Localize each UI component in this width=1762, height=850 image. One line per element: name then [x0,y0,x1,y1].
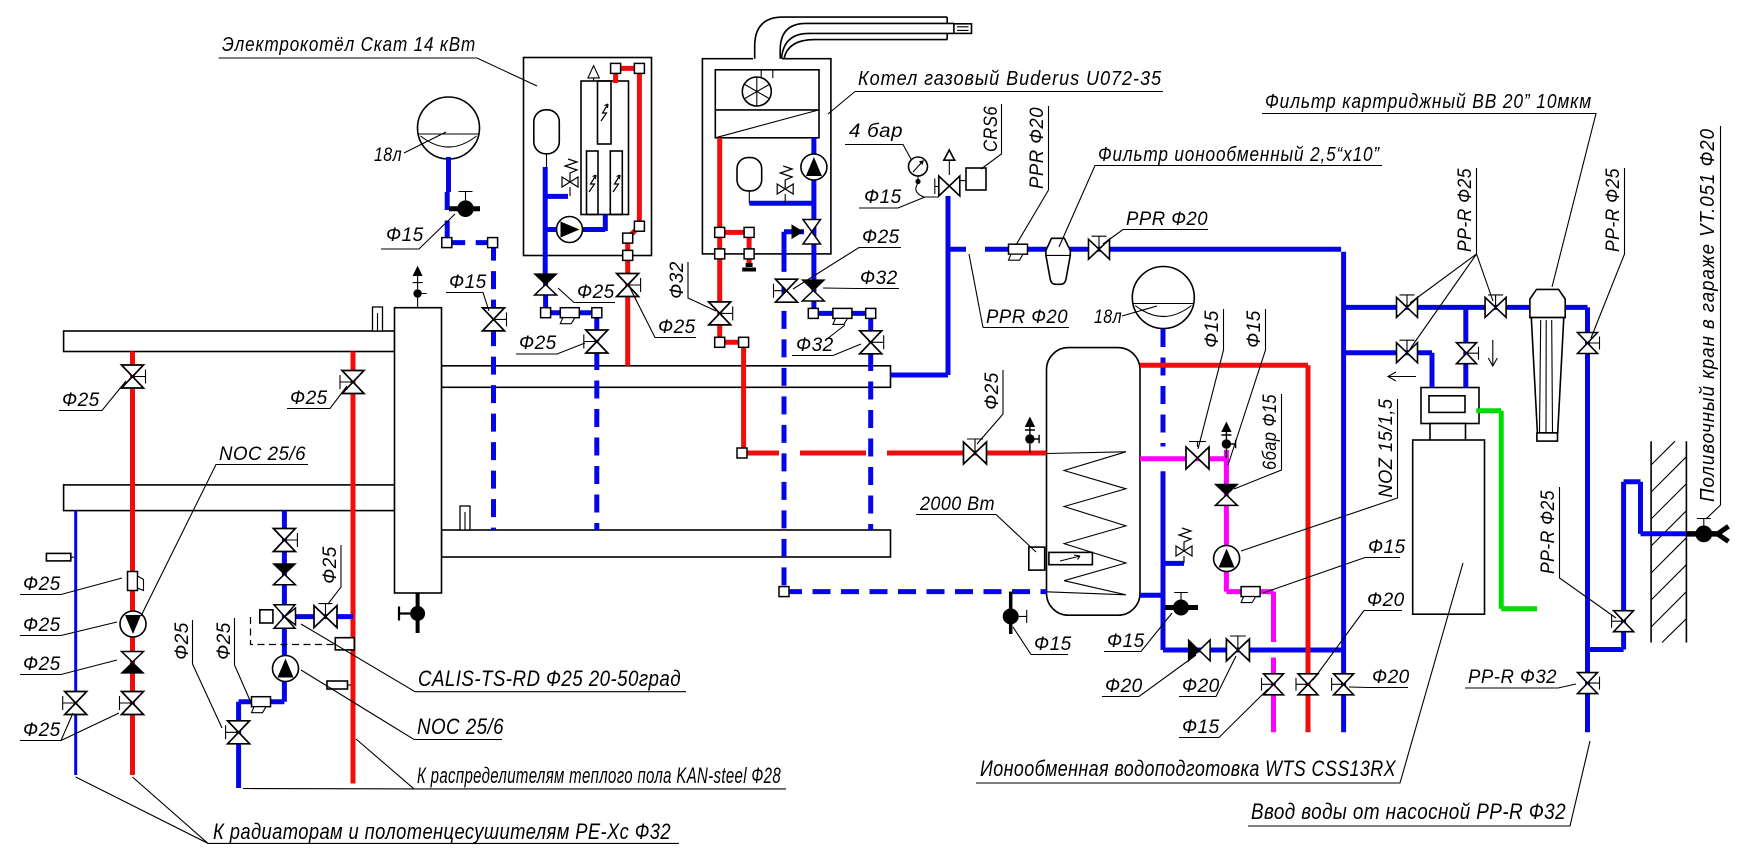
label CRS6 [981,104,1002,169]
svg-text:Фильтр картриджный ВВ 20” 10мк: Фильтр картриджный ВВ 20” 10мкм [1265,91,1592,113]
label F15 magenta bottom [1179,689,1268,738]
label PP-R F25 pair vertical [1410,168,1493,349]
svg-text:Ф15: Ф15 [449,272,487,293]
svg-text:PP-R Ф25: PP-R Ф25 [1538,490,1559,574]
label gas boiler [828,68,1163,114]
valve F25 red to coil [964,442,987,464]
label 18l no.2 [1094,306,1157,328]
label F25 rot mixing 1 [172,620,222,728]
wire: magenta dhw recirculation [1140,450,1274,732]
pump NOZ magenta (up) [1214,546,1240,572]
label NOC 25/6 upper [141,444,308,616]
pressure gauge 4 bar [909,157,939,197]
label to floor distributors [243,739,786,789]
check valve red riser left [122,652,144,674]
valve garden tap branch [1614,611,1634,632]
svg-text:4 бар: 4 бар [849,121,903,142]
electric boiler box [524,58,652,256]
svg-text:Ионообменная водоподготовка WT: Ионообменная водоподготовка WTS CSS13RX [980,756,1397,781]
svg-text:Ф15: Ф15 [386,225,424,246]
check valve elec boiler return [535,274,557,295]
svg-text:Котел газовый Buderus U072-35: Котел газовый Buderus U072-35 [858,68,1162,90]
svg-text:Ф32: Ф32 [667,261,688,299]
svg-text:PP-R Ф25: PP-R Ф25 [1603,168,1624,252]
svg-text:Ф32: Ф32 [860,268,898,289]
label F25 stack d [20,713,119,741]
gas boiler expansion vessel [737,158,762,204]
label F15 union magenta [1263,537,1406,593]
valve F25 red riser floor [342,371,364,394]
label garden tap rot [1697,126,1721,519]
drain valve tank bottom right [1165,593,1198,616]
junction squares elec boiler red [611,63,645,260]
label water inlet [1248,741,1590,826]
drain valve under dhw dashed line [1003,592,1027,634]
svg-text:Ф25: Ф25 [519,333,557,354]
gas boiler fan chamber [715,70,819,138]
wire: floor heating mixing blue [239,511,353,788]
wire: filter line top [1344,307,1588,732]
valve F20 red bottom [1298,674,1318,695]
label F25 rot mixing 2 [214,618,252,705]
svg-text:NOC 25/6: NOC 25/6 [219,444,306,465]
label F32 gas supply vertical [667,261,716,311]
wire: gas boiler red supply [720,138,749,453]
valve F25 mixing branch [314,606,337,628]
svg-text:Ф25: Ф25 [982,372,1003,410]
valve F32 gas return [860,331,882,354]
expansion tank 18l no.2 [1132,267,1194,329]
svg-text:Ф20: Ф20 [1372,667,1410,688]
check valve magenta [1215,484,1237,505]
label F15 dashed valve [446,272,489,311]
label 18l no.1 [374,132,446,166]
CRS6 controller box [966,168,986,190]
garage wall with hatching [1651,441,1686,642]
label F25 elec check [558,282,615,303]
valve PP-R F25 filter line 1 [1397,297,1418,317]
svg-text:Ф20: Ф20 [1367,590,1405,611]
label F25 elec supply valve [630,288,696,338]
label NOZ rot [1241,399,1398,552]
valve F20 blue bottom [1334,674,1354,695]
lower-right collector [442,530,891,557]
valve F15 on elec dashed riser [483,308,505,331]
valve F25 elec boiler return [586,330,608,353]
label F25 rot branch [320,545,341,604]
valve F25 gas return dashed [776,279,798,302]
cartridge filter head [1530,289,1565,317]
label 2000 W [916,494,1036,552]
flow arrow left on softener line [1388,372,1416,381]
svg-text:Ф15: Ф15 [1182,717,1220,738]
pump gas boiler [801,154,827,180]
label F25 stack b [20,615,117,636]
valve main riser top [1578,333,1598,354]
union gas boiler return [833,308,852,324]
ion exchange filter 2.5x10 [1046,238,1070,284]
label F20 blue bottom [1349,667,1410,688]
svg-text:Электрокотёл Скат 14 кВт: Электрокотёл Скат 14 кВт [222,34,476,56]
pump NOC mixing (up) [273,656,299,682]
valve F15 magenta bottom [1264,674,1284,695]
pump NOC left (down) [120,611,146,637]
svg-text:Ф25: Ф25 [172,622,193,660]
lower-left collector [64,485,395,511]
elec boiler expansion vessel [534,110,560,168]
svg-text:Ф15: Ф15 [864,187,902,208]
wire: dashed gas boiler return to lower collector [868,353,873,530]
check valve mixing [273,564,295,585]
safety valve elec boiler [562,159,578,196]
wire: exp tank 1 stem [446,157,451,192]
label F25 elec return valve [516,333,585,354]
thermometer near red floor riser [327,681,351,689]
wire: elec boiler red supply [616,68,640,365]
svg-text:2000 Вт: 2000 Вт [919,494,995,515]
wire: softener outlet riser [1463,307,1468,387]
svg-text:Ф25: Ф25 [23,574,61,595]
label to radiators [76,777,679,844]
air vent on separator top [413,266,427,308]
label F20 feed valve [1179,656,1236,697]
valve softener outlet riser [1457,343,1477,364]
svg-text:PP-R Ф25: PP-R Ф25 [1455,168,1476,252]
union magenta [1241,587,1260,603]
wire: boiler fill line from safety group [891,196,948,375]
valve F32 gas supply [709,302,731,325]
check valve tank cold feed [1189,640,1211,661]
label PP-R F25 rot drain [1538,487,1616,618]
junction squares elec boiler blue [442,238,602,318]
svg-text:К распределителям теплого пола: К распределителям теплого пола KAN-steel… [417,763,781,788]
svg-text:Фильтр ионообменный 2,5“х10”: Фильтр ионообменный 2,5“х10” [1098,144,1380,166]
svg-text:Ф25: Ф25 [862,227,900,248]
svg-text:Ф25: Ф25 [658,317,696,338]
label F25 red floor valve [287,386,347,409]
valve softener inlet [1397,343,1418,363]
svg-text:Ф25: Ф25 [320,546,341,584]
relief valve on tank feed riser [1176,528,1192,563]
svg-text:CRS6: CRS6 [981,106,1002,152]
tank electric heating element 2000W [1029,547,1093,570]
valve F25 mixing top [273,529,295,552]
upper-right collector [442,366,891,388]
label PPR F20 vertical [1016,106,1049,245]
svg-text:Ф15: Ф15 [1034,634,1072,655]
wire: softener inlet line [1344,353,1432,388]
svg-text:Ф25: Ф25 [23,720,61,741]
upper-left collector [64,331,395,352]
label F15 drain left [1013,627,1072,655]
elec boiler heater block [581,81,629,215]
label F32 gas check [823,268,899,289]
air vent on magenta corner [1221,422,1235,459]
junction squares gas boiler [715,227,876,596]
air vent on red coil line [1025,417,1039,454]
svg-text:Поливочный кран в гараже VT.05: Поливочный кран в гараже VT.051 Ф20 [1697,128,1719,502]
label 6bar F15 rot [1234,394,1282,489]
label F15 tank1 valve [381,214,455,249]
label F25 rot coil valve [977,370,1003,444]
svg-text:18л: 18л [1094,307,1122,328]
cartridge filter body [1531,318,1564,442]
label F15 rot pair [1198,309,1224,449]
svg-text:18л: 18л [374,145,402,166]
union mixing [252,697,271,713]
safety valve gas boiler [777,166,793,203]
svg-text:PPR Ф20: PPR Ф20 [1027,107,1048,189]
label ion exchange filter [1059,144,1382,247]
motor valve on magenta [1186,447,1209,469]
svg-text:Ф15: Ф15 [1244,310,1265,348]
svg-text:Ф15: Ф15 [1368,537,1406,558]
wire: red riser floor heating [351,352,356,784]
wire: red riser radiators [130,352,135,776]
label F25 stack a [20,574,122,595]
valve PP-R F32 inlet [1578,673,1598,694]
svg-text:Ф25: Ф25 [23,615,61,636]
label F20 red bottom [1313,590,1405,680]
valve red riser left bottom [122,692,144,715]
label 4 bar [845,121,912,160]
tank heating coil [1047,452,1126,595]
valve mixing drop [228,721,250,744]
capillary dashed to sensor [251,617,355,650]
label F15 gauge [859,187,925,208]
3-way valve CALIS [260,605,296,629]
label electric boiler [219,34,537,86]
expansion tank 18l no.1 [418,97,480,159]
label PPR F20 upper [1103,209,1208,244]
thermometer on lower-right collector [460,506,470,530]
wire: dashed return elec boiler to lower collector [594,352,599,530]
gas boiler flue [753,17,972,61]
svg-text:Ф25: Ф25 [577,282,615,303]
svg-text:Ф25: Ф25 [23,654,61,675]
wire: elec boiler return to collector [546,274,597,342]
gas boiler box [702,59,831,254]
svg-text:Ф20: Ф20 [1105,676,1143,697]
gas boiler drain trap [742,263,756,270]
wire: red supply to tank coil [744,451,1047,456]
valve PP-R F25 filter line 2 [1485,297,1506,317]
wire: red dhw hot supply [1140,365,1308,732]
wire: dashed exp tank 2 stem [1161,329,1166,447]
pump elec boiler [557,217,583,243]
svg-text:Ф25: Ф25 [290,388,328,409]
safety valve on fill group [943,150,956,175]
label cartridge filter [1262,91,1596,287]
wire: radiators return riser thin blue [74,511,77,775]
drain ball valve under separator [399,593,425,633]
valve PPR F20 main [1089,239,1110,259]
label F25 gas return valve [793,227,901,289]
hydraulic separator [395,308,442,593]
valve exp tank 1 (black ball) [449,192,480,218]
valve blue riser left [65,692,87,715]
label PP-R F32 [1465,667,1576,688]
svg-text:PPR Ф20: PPR Ф20 [1126,209,1208,230]
softener control head [1421,388,1479,442]
gas boiler fan [742,77,771,106]
svg-text:NOC 25/6: NOC 25/6 [417,714,504,739]
label NOC 25/6 lower [301,670,504,740]
label F20 check [1102,655,1196,697]
svg-text:Ввод воды от насосной PP-R Ф32: Ввод воды от насосной PP-R Ф32 [1251,799,1566,824]
3-way valve gas boiler [792,220,821,245]
wire: gas boiler internal blue [749,138,814,314]
union elec boiler return [560,308,579,324]
label F32 gas return valve [792,325,861,356]
svg-text:Ф25: Ф25 [62,390,100,411]
svg-text:Ф15: Ф15 [1107,631,1145,652]
svg-text:NOZ 15/1,5: NOZ 15/1,5 [1376,399,1397,498]
thermometer on upper-left collector [373,307,383,331]
wire: tank cold feed riser [1140,471,1196,650]
wire: dashed gas boiler dhw circuit to tank coil [784,254,1047,592]
svg-text:6бар Ф15: 6бар Ф15 [1260,394,1281,470]
wire: garden tap branch over wall [1588,482,1688,650]
wire: dashed exp tank 1 to elec boiler valve [447,192,493,530]
union red riser left [128,572,144,591]
svg-text:PP-R Ф32: PP-R Ф32 [1468,667,1557,688]
elec boiler vent arrow [588,66,599,81]
label CALIS [301,624,686,692]
wire: green softener drain [1476,411,1537,609]
softener tank body [1413,440,1485,614]
boiler fill safety group [939,176,960,196]
svg-text:CALIS-TS-RD Ф25 20-50град: CALIS-TS-RD Ф25 20-50град [418,666,681,691]
valve F20 tank cold feed [1226,639,1249,661]
svg-text:К радиаторам и полотенцесушите: К радиаторам и полотенцесушителям PE-Xc … [213,819,671,844]
wire: cold water main horizontal [948,249,1344,732]
flow arrow down near filter [1488,340,1497,366]
label F15 drain right [1104,613,1172,652]
thermometer on blue riser left [46,553,74,561]
valve F25 red riser left [122,365,144,388]
wire: tank bottom cold feed horizontal [1163,648,1344,653]
label PPR F20 lower [969,254,1069,328]
garden tap VT.051 [1686,519,1729,543]
wire: gas boiler return elbow [813,313,870,342]
label F25 red riser left valve [59,381,126,411]
union on cold main [1009,244,1028,260]
svg-text:Ф25: Ф25 [214,622,235,660]
svg-text:Ф15: Ф15 [1202,310,1223,348]
label ion exchange unit [976,563,1463,783]
indirect water heater tank [1047,348,1141,616]
valve F25 elec boiler supply [617,274,639,297]
svg-text:Ф20: Ф20 [1182,676,1220,697]
svg-text:PPR Ф20: PPR Ф20 [986,307,1068,328]
label F25 stack c [20,654,117,675]
wire: elec boiler internal blue [545,167,605,274]
check valve gas boiler return [802,280,824,301]
